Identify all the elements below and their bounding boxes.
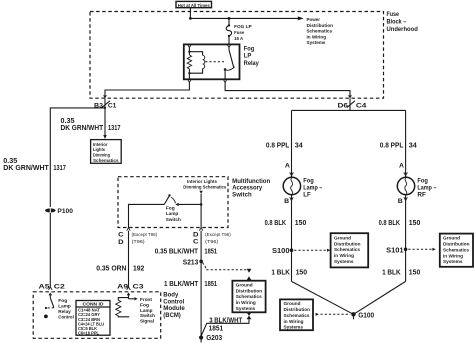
connector arrow at fuse block edge left — [103, 95, 107, 98]
svg-text:Lamp: Lamp — [140, 308, 153, 313]
relay box Fog LP Relay — [184, 44, 260, 79]
wire relay switch out to D6 — [225, 83, 350, 96]
splice S213 — [183, 257, 203, 266]
svg-text:0.8 PPL: 0.8 PPL — [380, 140, 404, 149]
splice S100 — [272, 246, 293, 255]
wire S100 diagonal to G100 — [292, 281, 354, 314]
svg-text:Systems: Systems — [284, 325, 304, 330]
svg-text:C2: C2 — [54, 283, 66, 290]
label Fuse Block - Underhood — [387, 12, 419, 33]
fog lamp relay control switch in BCM — [44, 298, 74, 320]
wire label 0.35 DK GRN/WHT 1317 left — [3, 156, 66, 172]
svg-text:Front: Front — [140, 297, 152, 302]
connector D6 C4 — [338, 101, 368, 110]
svg-text:1851: 1851 — [209, 324, 224, 333]
svg-text:D6: D6 — [338, 103, 349, 110]
wire label 1 BLK 150 left — [271, 267, 307, 276]
svg-text:(Except T96): (Except T96) — [205, 232, 231, 237]
wire 3 BLK/WHT to ground box — [201, 315, 249, 335]
svg-text:G203: G203 — [206, 333, 222, 342]
BCM dashed box — [33, 292, 161, 339]
wire to fog lamp RF — [405, 110, 407, 177]
svg-text:(BCM): (BCM) — [163, 312, 181, 319]
connector pin A5 C2 — [39, 283, 66, 290]
wire hot bus — [190, 17, 298, 19]
svg-text:C4: C4 — [356, 103, 367, 110]
wire relay coil out to B3 — [105, 83, 189, 96]
arrow into Interior Lights box — [103, 135, 107, 139]
svg-text:Lamp –: Lamp – — [417, 186, 437, 192]
svg-text:Ground: Ground — [284, 301, 301, 306]
svg-text:1317: 1317 — [53, 163, 66, 172]
svg-text:Lamp: Lamp — [166, 211, 179, 216]
svg-text:Control: Control — [58, 314, 74, 319]
svg-text:Distribution: Distribution — [307, 23, 334, 28]
wire switch left pin down to A9 — [128, 231, 130, 287]
svg-text:D: D — [118, 239, 124, 246]
svg-text:B3: B3 — [94, 103, 104, 110]
svg-text:Fog: Fog — [140, 302, 149, 307]
svg-text:Fog: Fog — [166, 206, 175, 211]
svg-text:A: A — [285, 162, 290, 169]
svg-text:Interior Lights: Interior Lights — [187, 179, 217, 184]
relay pin top switch — [227, 44, 231, 47]
svg-text:P100: P100 — [57, 208, 73, 215]
wire branch left and down left side — [50, 108, 105, 207]
front fog lamp switch signal resistor — [116, 298, 130, 317]
svg-text:0.8 BLK: 0.8 BLK — [379, 218, 401, 227]
pin A fog lamp RF — [399, 162, 407, 175]
svg-text:Switch: Switch — [140, 313, 155, 318]
arrow to dimming schematics — [199, 191, 202, 205]
svg-text:0.8 BLK: 0.8 BLK — [265, 218, 287, 227]
wire P100 to A5 — [49, 213, 51, 287]
svg-text:Distribution: Distribution — [334, 241, 361, 246]
svg-text:150: 150 — [409, 218, 421, 227]
Interior Lights Dimming Schematics box — [91, 140, 122, 164]
svg-text:A9: A9 — [117, 283, 129, 290]
svg-text:C: C — [118, 232, 124, 239]
svg-text:in Wiring: in Wiring — [307, 34, 327, 39]
connector pin A9 C3 — [117, 283, 144, 290]
svg-text:34: 34 — [409, 140, 418, 149]
node fuse tap — [228, 17, 231, 20]
label Body Control Module (BCM) — [163, 292, 185, 319]
svg-text:150: 150 — [296, 267, 308, 276]
wire through B3 C1 — [104, 98, 106, 134]
svg-text:in Wiring: in Wiring — [284, 319, 304, 324]
svg-text:S213: S213 — [183, 257, 199, 266]
wire label 0.8 BLK 150 right — [379, 218, 421, 227]
svg-text:Distribution: Distribution — [443, 242, 470, 247]
svg-text:Systems: Systems — [236, 306, 256, 311]
svg-text:Lamp –: Lamp – — [303, 186, 323, 192]
svg-text:Ground: Ground — [334, 235, 351, 240]
arrow pair below middle ground box — [247, 313, 252, 320]
dashed reference wire from S101 — [408, 248, 435, 251]
svg-text:DK GRN/WHT: DK GRN/WHT — [61, 123, 104, 132]
svg-text:Fog: Fog — [417, 179, 428, 185]
svg-text:1 BLK/WHT: 1 BLK/WHT — [164, 279, 199, 288]
svg-text:in Wiring: in Wiring — [443, 253, 463, 258]
svg-text:in Wiring: in Wiring — [236, 300, 256, 305]
fog lamp RF — [397, 177, 437, 198]
svg-text:0.35 ORN: 0.35 ORN — [96, 264, 126, 273]
svg-text:DK GRN/WHT: DK GRN/WHT — [3, 163, 49, 172]
svg-text:C: C — [193, 238, 199, 245]
svg-text:Schematics: Schematics — [93, 158, 119, 163]
switch box pin right — [193, 228, 231, 246]
svg-text:(Except T96): (Except T96) — [132, 232, 158, 237]
relay switch — [224, 48, 235, 80]
svg-text:S101: S101 — [386, 245, 404, 254]
svg-text:Fuse: Fuse — [387, 12, 400, 18]
svg-text:Signal: Signal — [140, 319, 154, 324]
svg-text:(T96): (T96) — [205, 239, 219, 244]
svg-text:Multifunction: Multifunction — [232, 179, 270, 185]
svg-text:Interior: Interior — [93, 142, 108, 147]
svg-text:Block –: Block – — [387, 20, 407, 26]
svg-text:Schematics: Schematics — [284, 313, 310, 318]
pin A fog lamp LF — [285, 162, 293, 175]
dashed reference wire to G100 — [316, 313, 351, 316]
svg-text:Ground: Ground — [236, 282, 253, 287]
dashed reference wire from S100 — [294, 249, 330, 252]
node branch at B3 wire — [104, 107, 106, 109]
wire label 0.35 BLK/WHT 1851 — [155, 246, 217, 255]
svg-text:Relay: Relay — [244, 61, 260, 67]
svg-text:15 A: 15 A — [234, 36, 244, 41]
svg-text:A5: A5 — [39, 283, 51, 290]
svg-text:CONN ID: CONN ID — [83, 302, 105, 307]
svg-text:in Wiring: in Wiring — [334, 253, 354, 258]
label Multifunction Accessory Switch — [232, 179, 270, 199]
svg-text:Hot at All Times: Hot at All Times — [178, 3, 210, 8]
svg-text:(T96): (T96) — [132, 239, 146, 244]
svg-text:A: A — [399, 162, 404, 169]
svg-text:LP: LP — [244, 54, 252, 60]
ground distribution box right — [440, 234, 473, 267]
splice S101 — [386, 245, 407, 254]
connector P100 — [45, 208, 73, 215]
svg-text:34: 34 — [295, 140, 304, 149]
svg-text:Fuse: Fuse — [234, 30, 244, 35]
node bus junction — [189, 17, 192, 20]
svg-text:LF: LF — [303, 193, 311, 199]
fuse block underhood dashed box — [90, 12, 384, 99]
arrow to Power Distribution — [298, 16, 333, 45]
svg-text:RF: RF — [417, 193, 426, 199]
BCM pin arrow A5 — [49, 292, 53, 297]
wire bus to fuse — [228, 18, 230, 25]
svg-text:B: B — [398, 198, 403, 205]
svg-text:Fog: Fog — [58, 298, 67, 303]
wire fog lamp LF to S100 — [291, 195, 293, 282]
wire through D6 C4 — [349, 98, 351, 110]
wire label 0.35 ORN 192 — [96, 264, 144, 273]
ground distribution box middle — [232, 281, 265, 313]
svg-text:Switch: Switch — [232, 193, 252, 199]
fog lamp switch — [129, 194, 202, 227]
svg-text:Accessory: Accessory — [232, 186, 263, 192]
svg-text:Schematics: Schematics — [236, 294, 262, 299]
svg-text:Systems: Systems — [443, 259, 463, 264]
svg-text:Schematics: Schematics — [307, 29, 333, 34]
wire label 0.8 PPL 34 left — [266, 140, 304, 149]
connector B3 C1 — [94, 101, 117, 110]
svg-text:Underhood: Underhood — [387, 27, 419, 33]
svg-text:Dimming Schematics: Dimming Schematics — [183, 185, 226, 190]
CONN ID table — [76, 301, 110, 336]
svg-text:C6=16 PPL: C6=16 PPL — [78, 331, 99, 336]
svg-text:1317: 1317 — [108, 123, 121, 132]
wire switch output down — [200, 204, 202, 227]
wire label 0.8 BLK 150 left — [265, 218, 307, 227]
label Interior Lights Dimming Schematics inside switch box — [183, 179, 226, 190]
ground G100 — [351, 311, 374, 320]
svg-text:Dimming: Dimming — [93, 153, 110, 158]
svg-text:G100: G100 — [358, 311, 374, 320]
fuse FOG LP 15A — [226, 24, 251, 41]
svg-text:0.8 PPL: 0.8 PPL — [266, 140, 290, 149]
svg-text:C3: C3 — [133, 283, 145, 290]
wire from Hot box down to bus — [189, 8, 191, 19]
Hot at All Times box — [176, 1, 212, 7]
svg-text:Switch: Switch — [166, 217, 181, 222]
wire fuse to relay — [228, 36, 230, 45]
relay actuator dashed link — [205, 61, 224, 63]
wire label 0.35 DK GRN/WHT 1317 upper — [61, 116, 121, 132]
svg-text:Distribution: Distribution — [236, 288, 263, 293]
wire label 0.8 PPL 34 right — [380, 140, 418, 149]
wire fog lamp RF to S101 — [405, 195, 407, 282]
svg-text:1 BLK: 1 BLK — [382, 267, 401, 276]
pin B fog lamp LF — [284, 197, 293, 205]
relay pin top coil — [188, 44, 192, 47]
svg-text:Lamp: Lamp — [58, 303, 71, 308]
wire S101 diagonal to G100 — [354, 281, 406, 314]
arrow front fog lamp switch signal — [129, 297, 156, 324]
wire to fog lamp LF — [291, 110, 293, 177]
svg-text:Systems: Systems — [334, 259, 354, 264]
relay coil winding parallel branch — [189, 52, 204, 73]
relay pin bottom switch — [223, 79, 227, 82]
svg-text:1 BLK: 1 BLK — [271, 267, 290, 276]
ground distribution box upper middle — [331, 233, 369, 267]
svg-text:Distribution: Distribution — [284, 307, 311, 312]
wire split bar to both fog lamps — [292, 109, 406, 111]
svg-text:150: 150 — [295, 218, 307, 227]
BCM pin arrow A9 — [127, 292, 131, 298]
switch box pin left — [118, 228, 157, 246]
svg-text:1851: 1851 — [204, 279, 217, 288]
wire switch right pin down to G203 — [200, 231, 202, 338]
svg-text:Schematics: Schematics — [334, 247, 360, 252]
connector arrow at fuse block edge right — [348, 95, 352, 98]
wire label 1 BLK/WHT 1851 — [164, 279, 217, 288]
svg-text:C1: C1 — [108, 103, 117, 110]
svg-text:B: B — [284, 198, 289, 205]
node switch output — [200, 203, 203, 206]
ground G203 — [199, 333, 222, 342]
svg-text:Fog: Fog — [303, 179, 314, 185]
svg-text:0.35 BLK/WHT: 0.35 BLK/WHT — [155, 246, 199, 255]
svg-text:S100: S100 — [272, 246, 290, 255]
svg-text:Systems: Systems — [307, 40, 326, 45]
svg-text:1851: 1851 — [204, 246, 217, 255]
svg-text:Relay: Relay — [58, 309, 71, 314]
pin B fog lamp RF — [398, 197, 408, 205]
relay coil resistor branch — [187, 48, 191, 80]
svg-text:Power: Power — [307, 17, 321, 22]
multifunction accessory switch dashed box — [118, 177, 228, 228]
fog lamp LF — [283, 177, 323, 198]
dashed reference wire from S213 — [202, 263, 251, 281]
svg-text:Lights: Lights — [93, 147, 105, 152]
svg-text:Schematics: Schematics — [443, 247, 469, 252]
svg-text:FOG LP: FOG LP — [234, 24, 252, 29]
svg-text:192: 192 — [133, 264, 144, 273]
svg-text:Ground: Ground — [443, 236, 460, 241]
ground distribution box left of G100 — [280, 299, 313, 330]
svg-text:150: 150 — [409, 267, 421, 276]
svg-text:Fog: Fog — [244, 47, 255, 53]
relay pin bottom coil — [188, 79, 192, 82]
wire label 1 BLK 150 right — [382, 267, 420, 276]
